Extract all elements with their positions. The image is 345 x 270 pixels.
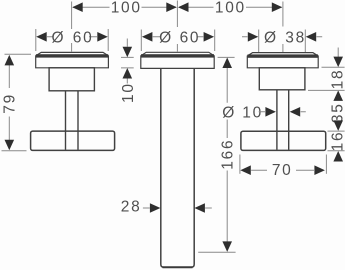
dim D38: extension lines	[259, 30, 306, 53]
dim 166: extension top	[218, 56, 235, 58]
middle pipe bottom edge	[163, 266, 193, 268]
dim D60 left arrow right	[97, 32, 108, 42]
dim 16 arrow up	[333, 151, 343, 162]
dim 10 ticks	[121, 57, 134, 68]
dim 70 arrow right	[314, 165, 325, 175]
svg-text:10: 10	[242, 104, 263, 121]
svg-text:60: 60	[180, 30, 201, 47]
dim 18 extension top	[322, 66, 345, 68]
left handle stem	[65, 91, 67, 150]
left plate thick rim band	[36, 54, 108, 57]
dim 100: extension line middle center	[176, 1, 178, 52]
dim 10 arrow down	[123, 47, 133, 58]
dim D38 arrow right pointing left	[306, 32, 317, 42]
dim 166 line	[226, 68, 228, 242]
svg-text:100: 100	[215, 0, 246, 16]
dim 100 left arrow left	[72, 2, 83, 12]
dim D10 arrow pointing left	[290, 107, 301, 117]
svg-text:10: 10	[120, 82, 137, 103]
left handle cross bar	[31, 131, 115, 150]
svg-text:16: 16	[329, 131, 345, 152]
middle plate thick rim band	[141, 54, 214, 57]
dim D10 leader lines	[259, 111, 306, 113]
dim 28 arrow pointing left	[194, 203, 205, 213]
right plate thick rim band	[248, 54, 319, 57]
dim D10 arrow pointing right	[265, 107, 276, 117]
dim 79 line	[8, 65, 10, 141]
dim 166 arrow up	[222, 58, 232, 69]
right valve body sleeve	[259, 68, 305, 90]
dim 100 right line	[179, 6, 282, 8]
svg-text:70: 70	[272, 162, 293, 179]
dim 28 leader lines	[143, 207, 212, 209]
dim 70 line	[251, 169, 314, 171]
dim 100 left line	[73, 6, 176, 8]
dim D60 left line	[47, 36, 97, 38]
svg-text:60: 60	[73, 30, 94, 47]
dim 100 left arrow right	[166, 2, 177, 12]
dim 100 right: extension line right center	[282, 2, 284, 53]
dim D60 left arrow left	[36, 32, 47, 42]
svg-text:Ø: Ø	[52, 30, 66, 47]
right valve stem	[276, 90, 278, 150]
svg-text:Ø: Ø	[159, 30, 173, 47]
left handle plate escutcheon	[36, 52, 109, 67]
svg-text:Ø: Ø	[222, 104, 236, 121]
dim 35 extension top	[308, 89, 345, 91]
svg-text:28: 28	[121, 199, 142, 216]
dim 79: extension top	[5, 53, 32, 55]
dim 70: extension right	[325, 155, 327, 174]
dim 18 arrow down	[333, 57, 343, 68]
dim D60 middle arrow right	[204, 32, 215, 42]
middle spout pipe	[161, 68, 194, 267]
right valve plate escutcheon	[247, 53, 318, 68]
dim 70: extension left	[239, 155, 241, 174]
dim 100 right arrow right	[272, 2, 283, 12]
svg-text:18: 18	[329, 69, 345, 90]
dim D60 middle line	[153, 36, 204, 38]
dim 16 extension top	[328, 130, 345, 132]
svg-text:Ø: Ø	[264, 30, 278, 47]
dim 79 arrow up	[5, 55, 15, 66]
dim 70 arrow left	[240, 165, 251, 175]
dim 100 left: extension line left center	[71, 2, 73, 52]
dim D60 left: extension lines	[36, 29, 108, 51]
dim 166: extension bottom	[198, 251, 235, 253]
dim 28 arrow pointing right	[150, 203, 161, 213]
right valve cross bar	[241, 131, 326, 150]
dim 79: extension bottom	[2, 150, 27, 152]
dim D38 tails	[242, 36, 322, 38]
dim D38 arrow left pointing right	[248, 32, 258, 42]
dim 10 arrow up	[123, 68, 133, 79]
dim 79 arrow down	[5, 140, 15, 151]
dim 18: line above	[337, 48, 339, 58]
svg-text:166: 166	[220, 139, 237, 170]
left handle body	[49, 68, 94, 91]
middle spout plate escutcheon	[141, 52, 214, 68]
dim 16 extension bottom	[328, 150, 345, 152]
svg-text:38: 38	[285, 30, 306, 47]
svg-text:79: 79	[2, 93, 19, 114]
svg-text:35: 35	[329, 102, 345, 123]
dim 18 arrow up shared with dim 35	[333, 90, 343, 101]
dim 10 middle plate: line	[126, 39, 128, 84]
dim D60 middle arrow left	[142, 32, 153, 42]
svg-text:100: 100	[111, 0, 142, 16]
dim D60 middle: extension lines	[141, 30, 214, 52]
dim 166 arrow down	[222, 241, 232, 252]
dim 100 right arrow left	[178, 2, 189, 12]
dim 35 arrow down shared with dim 16	[333, 120, 343, 130]
